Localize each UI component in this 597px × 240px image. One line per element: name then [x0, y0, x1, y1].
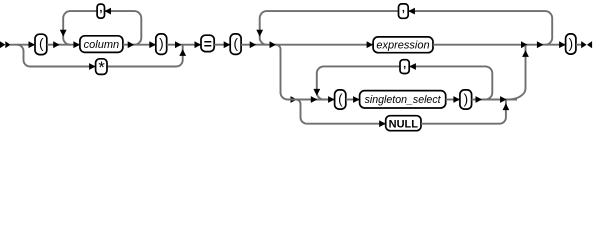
- terminal ( box 2: [230, 34, 241, 55]
- arrowhead down on inner loop: [313, 89, 320, 96]
- wire: singleton row left: [288, 99, 335, 101]
- terminal comma box loop 1: [97, 3, 104, 18]
- arrowhead into ( 2: [224, 41, 231, 48]
- terminal * box: [96, 59, 107, 77]
- arrowhead singleton row second: [311, 96, 318, 103]
- svg-text:NULL: NULL: [389, 119, 419, 131]
- arrowhead singleton row first: [291, 96, 298, 103]
- wire: branch down to NULL row: [296, 100, 307, 124]
- arrowhead down on loop 1: [60, 30, 67, 37]
- arrowhead up from * row: [179, 49, 186, 56]
- svg-text:column: column: [84, 39, 119, 51]
- wire: to end: [576, 44, 582, 46]
- arrowhead into ) final: [559, 41, 566, 48]
- terminal ) box 3: [460, 90, 472, 109]
- svg-text:singleton_select: singleton_select: [365, 94, 442, 106]
- arrowhead left into comma outer: [408, 8, 415, 15]
- terminal = box: [201, 35, 214, 52]
- wire: column to ): [123, 44, 156, 46]
- svg-text:(: (: [234, 36, 239, 51]
- svg-text:,: ,: [403, 58, 406, 70]
- terminal comma box outer loop: [399, 3, 409, 19]
- arrowhead left into comma inner: [409, 63, 416, 70]
- arrowhead into ( 3: [328, 96, 335, 103]
- wire: expression to ) final: [433, 44, 566, 46]
- terminal ) box final: [566, 34, 576, 54]
- wire: inner comma loop: [317, 66, 493, 99]
- svg-text:,: ,: [402, 3, 405, 15]
- svg-text:,: ,: [99, 3, 102, 15]
- svg-text:(: (: [39, 36, 44, 51]
- arrowhead up to main line: [522, 50, 529, 57]
- wire: = to (: [214, 44, 230, 46]
- terminal ) box 1: [156, 34, 167, 55]
- terminal comma box inner loop: [400, 58, 409, 73]
- wire: singleton row up to main: [508, 45, 526, 99]
- svg-text:expression: expression: [376, 40, 429, 52]
- arrowhead into =: [195, 41, 202, 48]
- wire: start to ( box: [10, 44, 35, 46]
- wire: * row return up: [107, 45, 183, 66]
- arrowhead after (: [53, 41, 60, 48]
- wire: NULL row: [307, 123, 386, 125]
- arrowhead left into comma 1: [105, 8, 112, 15]
- wire: singleton row right: [472, 99, 517, 101]
- svg-text:): ): [569, 36, 574, 51]
- arrowhead before alternatives branch: [270, 41, 277, 48]
- svg-text:): ): [464, 91, 469, 106]
- wire: main line to expression: [241, 44, 373, 46]
- terminal ( box 1: [35, 34, 47, 54]
- wire: comma loop 1: [63, 11, 141, 45]
- svg-text:(: (: [338, 91, 343, 106]
- arrowhead into NULL: [379, 120, 386, 127]
- wire: bypass branch down to * row: [17, 45, 96, 67]
- arrowhead down on outer loop: [256, 30, 263, 37]
- nonterminal expression: [373, 37, 433, 53]
- arrowhead into singleton_select: [353, 96, 360, 103]
- wire: singleton_select to ): [446, 99, 460, 101]
- svg-text:): ): [159, 36, 164, 51]
- arrowhead after ( 2: [250, 41, 257, 48]
- nonterminal singleton_select: [360, 91, 446, 108]
- start arrows: [0, 41, 5, 48]
- arrowhead at NULL merge: [500, 96, 507, 103]
- nonterminal column: [80, 36, 123, 53]
- wire: branch down to singleton row: [276, 45, 288, 100]
- terminal NULL: [386, 116, 421, 131]
- wire: ( to singleton_select: [346, 99, 360, 101]
- arrowhead into *: [89, 63, 96, 70]
- end arrows: [581, 41, 586, 48]
- arrowhead up from NULL row: [503, 103, 510, 110]
- terminal ( box 3: [335, 90, 346, 109]
- wire: ( to column: [47, 44, 80, 46]
- svg-text:=: =: [204, 36, 212, 52]
- arrowhead into expression: [367, 41, 374, 48]
- svg-text:*: *: [98, 59, 105, 77]
- wire: ) to =: [167, 44, 201, 46]
- arrowhead after merge: [537, 41, 544, 48]
- arrowhead into ): [149, 41, 156, 48]
- arrowhead into ( box: [29, 41, 36, 48]
- arrowhead at merge on main: [521, 41, 528, 48]
- arrowhead after ): [175, 41, 182, 48]
- arrowhead after ) 3: [476, 96, 483, 103]
- arrowhead into ) 3: [453, 96, 460, 103]
- wire: outer comma loop: [260, 11, 553, 45]
- wire: NULL row right and up: [421, 100, 506, 124]
- arrowhead after column: [128, 41, 135, 48]
- arrowhead into column: [73, 41, 80, 48]
